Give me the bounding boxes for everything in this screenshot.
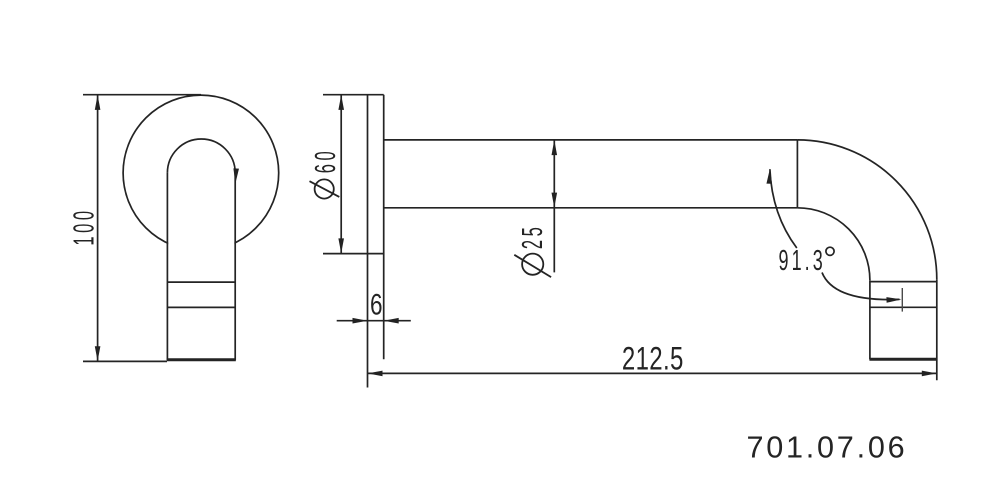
arrow dim212.5 left [368, 371, 383, 377]
tube bottom line [384, 207, 798, 209]
arrow dim6 right [384, 318, 399, 324]
svg-text:25: 25 [517, 224, 549, 249]
arrow angle leader bottom [886, 297, 901, 303]
outlet mid line [870, 306, 937, 308]
front view flange circle [123, 95, 279, 251]
arrow front arc end [233, 168, 239, 183]
arrow angle leader top [766, 169, 772, 184]
plate front line [367, 95, 369, 388]
front tube upper cross line [167, 281, 235, 283]
arrow dim25 bottom [552, 193, 558, 208]
svg-text:6: 6 [370, 287, 383, 321]
front tube bottom edge [167, 358, 236, 361]
diameter symbol for 60 [310, 179, 340, 198]
bend inner arc [797, 208, 870, 280]
bend start line [796, 140, 798, 208]
plate back line [383, 95, 385, 360]
front tube left line [166, 173, 168, 360]
dim 100 top extension line [83, 94, 201, 96]
dim 212.5 line [368, 372, 937, 374]
outlet right edge [936, 279, 938, 380]
arrow dim25 top [552, 140, 558, 155]
arrow dim100 bottom [95, 346, 101, 361]
svg-text:701.07.06: 701.07.06 [747, 430, 908, 464]
arrow dim60 top [338, 95, 344, 110]
svg-text:100: 100 [69, 207, 101, 245]
degree symbol [826, 247, 834, 255]
tube top line [384, 139, 798, 141]
dim 60 line [340, 95, 342, 253]
outlet top line [870, 281, 937, 283]
arrow dim212.5 right [922, 371, 937, 377]
arrow dim6 left [353, 318, 368, 324]
svg-text:212.5: 212.5 [622, 340, 684, 376]
dim 100 bottom extension line [83, 360, 167, 362]
outlet left edge [869, 280, 871, 359]
bend outer arc [797, 140, 936, 279]
angle leader lower arc [822, 273, 900, 300]
side view plate top edge [323, 94, 384, 96]
svg-text:91.3: 91.3 [779, 245, 826, 277]
side view plate bottom edge [323, 253, 384, 255]
outlet tick mark [901, 288, 903, 312]
front tube right line [234, 173, 236, 360]
dim 6 line [337, 320, 411, 322]
angle leader upper arc [770, 169, 797, 248]
outlet bottom edge [869, 358, 937, 361]
front view spout arc [167, 139, 235, 173]
mask over circle behind spout tube [168, 173, 234, 359]
arrow dim60 bottom [338, 238, 344, 253]
svg-text:60: 60 [310, 148, 342, 173]
front tube lower cross line [167, 306, 235, 308]
dim 25 line [553, 140, 555, 273]
dim 100 line [97, 95, 99, 361]
arrow dim100 top [95, 95, 101, 110]
diameter symbol for 25 [514, 254, 551, 278]
